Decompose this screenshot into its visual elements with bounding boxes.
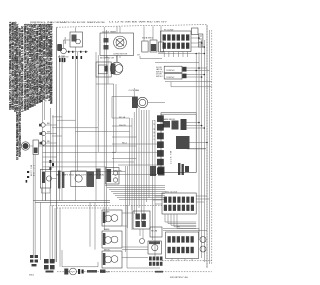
marks near pair xyxy=(26,171,30,183)
connector block J2 xyxy=(149,257,163,266)
left long verticals xyxy=(43,108,54,205)
junction dots xyxy=(198,122,208,144)
vertical wire bus center xyxy=(130,108,156,260)
wire drops from border to switches xyxy=(117,26,161,42)
terminal block TB1 xyxy=(161,29,192,51)
svg-text:HI LIM: HI LIM xyxy=(151,230,157,232)
svg-text:LOCK SW: LOCK SW xyxy=(171,151,173,164)
svg-text:8113P397-60: 8113P397-60 xyxy=(170,277,189,279)
svg-text:RD-5: RD-5 xyxy=(122,143,128,145)
oven control box U1 xyxy=(161,113,196,173)
igniter wire xyxy=(155,62,199,64)
cooling fan motor M2 xyxy=(132,97,148,109)
junction dots right xyxy=(195,67,205,78)
wire xyxy=(64,40,71,48)
wires TB1 down xyxy=(164,52,188,58)
wire lower xyxy=(165,82,212,87)
footer caption dark tick xyxy=(155,271,163,273)
svg-text:BK WH: BK WH xyxy=(103,271,110,273)
callout stubs xyxy=(43,102,45,123)
svg-text:WIRING INFORMATION FOR SERVICE: WIRING INFORMATION FOR SERVICE xyxy=(30,21,106,24)
convection motor M1 xyxy=(110,62,123,75)
wires right of U2 xyxy=(153,196,210,204)
infinite switch row xyxy=(142,37,164,52)
wire ticks xyxy=(72,56,82,59)
door lock motor circle xyxy=(61,48,67,54)
wire top right xyxy=(158,53,204,55)
dark dashes on verticals xyxy=(49,160,54,170)
relay K2 xyxy=(71,169,101,188)
horizontal wire fan xyxy=(105,186,165,200)
thermal fuse circle xyxy=(140,239,145,244)
fan switch box xyxy=(148,241,162,254)
svg-text:BK WH RD OR: BK WH RD OR xyxy=(100,58,115,60)
wires bottom center xyxy=(122,205,160,268)
terminal strip TS1 xyxy=(182,67,186,78)
wire with markers xyxy=(66,51,88,53)
dashed partition xyxy=(162,260,212,262)
dashed rails xyxy=(50,204,162,206)
left-mid horizontal wires xyxy=(43,146,57,172)
wire drops to bake motor xyxy=(89,203,91,247)
oven lamp branch xyxy=(62,250,106,275)
svg-text:P1 CONN: P1 CONN xyxy=(164,29,174,31)
svg-text:L1 L2 N GR BK WH RD OR GY: L1 L2 N GR BK WH RD OR GY xyxy=(109,22,168,24)
svg-text:RD: RD xyxy=(47,141,51,143)
supply ring L1 xyxy=(39,123,57,127)
svg-text:SW A SW B: SW A SW B xyxy=(142,37,154,40)
wires above board xyxy=(163,229,207,233)
latch switch box S1 xyxy=(64,32,83,47)
junction dots xyxy=(195,37,205,54)
svg-text:COM NO: COM NO xyxy=(166,70,175,72)
hi-limit box xyxy=(150,227,162,237)
svg-text:P4 P5 P6: P4 P5 P6 xyxy=(113,170,123,172)
valve cluster xyxy=(106,168,120,185)
oven light switch box xyxy=(96,62,111,77)
cabinet outline left border xyxy=(56,27,58,262)
double horizontal rail xyxy=(33,200,110,202)
timer box T1 xyxy=(100,31,134,55)
vertical wire bundle right xyxy=(196,25,209,268)
wire xyxy=(75,27,77,32)
cabinet outline dashed border top xyxy=(57,25,208,28)
svg-text:SW-1: SW-1 xyxy=(29,274,35,276)
wires under timer xyxy=(104,56,120,59)
relay board U3 xyxy=(166,232,199,259)
label box L1 xyxy=(192,28,199,35)
fan motor box xyxy=(102,210,122,226)
svg-text:SW N.C.: SW N.C. xyxy=(156,76,164,78)
svg-text:SHOWN DE-ENERGIZED BU BLOCK AL: SHOWN DE-ENERGIZED BU BLOCK ALL VT WIRIN… xyxy=(51,23,54,103)
svg-text:NOTE: NOTE xyxy=(51,21,53,29)
cabinet outline dashed border bottom xyxy=(57,271,212,273)
broil motor box xyxy=(102,251,122,268)
svg-text:LATCH: LATCH xyxy=(64,37,67,44)
svg-text:BAKE BROIL: BAKE BROIL xyxy=(163,118,176,121)
wires below U2 xyxy=(165,214,196,228)
notes text block (rotated service notes) xyxy=(9,21,54,160)
svg-text:BK-1A: BK-1A xyxy=(119,116,126,119)
supply ring N xyxy=(39,131,56,135)
supply ring L2 xyxy=(39,141,56,145)
U1 lower contacts xyxy=(176,136,207,149)
wire horizontal xyxy=(96,83,114,85)
wire xyxy=(140,56,162,59)
lower left vertical wires xyxy=(33,154,55,263)
cabinet outline dashed border right xyxy=(206,25,208,268)
connector columns xyxy=(58,171,64,189)
door lock rings xyxy=(200,237,206,243)
fuse holder xyxy=(198,34,203,47)
svg-text:COM NC: COM NC xyxy=(166,77,175,79)
lock motor box xyxy=(40,170,56,201)
door switch cluster xyxy=(21,140,56,154)
svg-text:CLOCK TIMER: CLOCK TIMER xyxy=(102,31,117,33)
right end cluster xyxy=(150,166,165,176)
bake motor box xyxy=(102,231,122,248)
wires TB1 right xyxy=(191,38,204,47)
vertical wire pair mid-right xyxy=(125,166,127,252)
U1 lock bars xyxy=(178,163,189,175)
wires motor M2 xyxy=(112,88,165,118)
mid band horizontal wires xyxy=(52,117,137,172)
spark module cluster xyxy=(29,255,55,276)
U1 inner contact row xyxy=(163,118,187,130)
vertical wire bus left xyxy=(60,27,118,230)
wire xyxy=(116,55,118,62)
svg-text:1. CONTACTS OPERATING DOOR 6.: 1. CONTACTS OPERATING DOOR 6. CABINET SE… xyxy=(21,26,24,112)
U3 bottom stubs xyxy=(172,259,192,261)
latch switch boxes xyxy=(164,66,182,79)
connector P1 blob xyxy=(57,44,62,51)
U1 wires right xyxy=(187,123,205,129)
wires TS1 right xyxy=(187,68,210,77)
terminal stack TS2 xyxy=(154,115,164,174)
door latch label stack xyxy=(156,67,164,78)
clock board U2 xyxy=(162,193,196,214)
contact block with X marks xyxy=(133,211,150,229)
svg-text:CONV MOTOR: CONV MOTOR xyxy=(113,54,128,56)
